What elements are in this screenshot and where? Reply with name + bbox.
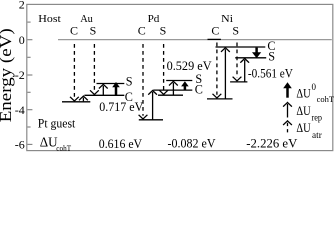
svg-text:C: C: [195, 82, 203, 96]
svg-text:0.616 eV: 0.616 eV: [99, 137, 143, 151]
Ni C attraction arrow (dashed): [213, 43, 222, 99]
Pd S final level: [166, 80, 192, 82]
svg-text:0.529 eV: 0.529 eV: [167, 59, 213, 73]
Pd C attraction bottom level: [139, 119, 163, 121]
Au C attraction arrow (dashed): [70, 44, 79, 101]
svg-text:ΔU: ΔU: [296, 86, 311, 101]
y-axis minor ticks: [27, 22, 30, 127]
column site labels C S: [70, 24, 239, 38]
Pd cohesion thick arrow: [181, 81, 189, 90]
svg-text:0.717 eV: 0.717 eV: [99, 100, 144, 114]
Au C attraction bottom level: [62, 101, 90, 103]
svg-text:S: S: [232, 24, 239, 38]
svg-text:cohT: cohT: [317, 94, 335, 104]
svg-text:0: 0: [19, 33, 25, 47]
Pd C final level: [153, 89, 192, 91]
Ni zero reference level: [208, 38, 221, 40]
svg-text:0: 0: [312, 82, 317, 92]
legend thin arrow dUrep: [283, 102, 292, 117]
Ni C attraction bottom level: [207, 98, 233, 100]
plot frame: [27, 4, 333, 150]
Ni S attraction bottom level: [230, 81, 247, 83]
Au cohesion thick arrow: [112, 82, 120, 95]
Au S repulsion arrow: [99, 84, 108, 95]
zero energy line: [58, 39, 332, 41]
Pd S attraction bottom level: [158, 94, 183, 96]
legend dashed arrow dUatr: [283, 121, 292, 133]
Ni C repulsion arrow (tall): [221, 48, 230, 99]
svg-text:C: C: [211, 24, 219, 38]
legend thick arrow dU0cohT: [283, 82, 292, 97]
svg-text:C: C: [138, 24, 146, 38]
svg-text:-4: -4: [15, 103, 25, 117]
Au S attraction arrow (dashed): [90, 44, 99, 95]
svg-text:-0.082 eV: -0.082 eV: [168, 136, 217, 150]
svg-text:-2.226 eV: -2.226 eV: [246, 137, 298, 151]
svg-text:Host: Host: [38, 13, 61, 25]
Pd C attraction arrow (dashed): [139, 44, 148, 119]
y-axis tick labels: [15, 0, 25, 152]
svg-text:2: 2: [19, 0, 25, 12]
Pd S attraction arrow (dashed): [159, 44, 168, 94]
y-axis major ticks: [27, 40, 32, 145]
Au C final level: [84, 94, 124, 96]
Pd C repulsion arrow (tall): [148, 91, 157, 120]
svg-text:cohT: cohT: [56, 143, 71, 153]
Ni S final level: [235, 57, 266, 59]
Ni S attraction arrow (dashed): [233, 43, 242, 81]
svg-text:ΔU: ΔU: [40, 135, 58, 150]
svg-text:Energy (eV): Energy (eV): [0, 28, 15, 122]
svg-text:-0.561 eV: -0.561 eV: [248, 66, 294, 80]
Ni cohesion thick arrow (down): [252, 48, 261, 59]
svg-text:S: S: [160, 24, 167, 38]
svg-text:-2: -2: [15, 68, 25, 82]
svg-text:Pd: Pd: [148, 13, 160, 25]
svg-text:S: S: [126, 74, 133, 88]
svg-text:ΔU: ΔU: [296, 103, 311, 118]
svg-text:rep: rep: [312, 112, 323, 122]
Pd S repulsion arrow: [169, 81, 178, 95]
svg-text:Ni: Ni: [221, 13, 233, 25]
svg-text:Pt guest: Pt guest: [38, 117, 76, 131]
Ni C final level: [216, 46, 266, 48]
Ni S repulsion arrow: [240, 59, 249, 82]
Au S final level: [97, 83, 125, 85]
svg-text:S: S: [90, 24, 97, 38]
svg-text:S: S: [268, 50, 275, 64]
Au C repulsion arrow: [79, 96, 88, 101]
svg-text:C: C: [70, 24, 78, 38]
svg-text:-6: -6: [15, 138, 25, 152]
svg-text:atr: atr: [312, 130, 322, 140]
svg-text:ΔU: ΔU: [296, 120, 311, 135]
